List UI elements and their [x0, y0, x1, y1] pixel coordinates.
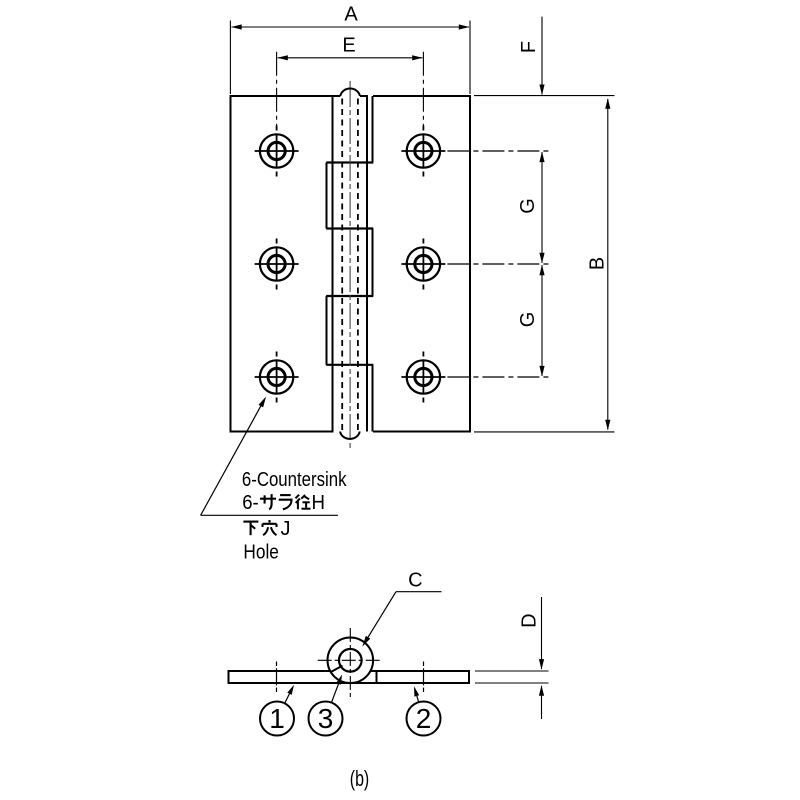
svg-text:Hole: Hole: [243, 541, 279, 563]
svg-text:J: J: [281, 518, 291, 540]
svg-text:G: G: [517, 312, 539, 328]
svg-text:D: D: [518, 613, 540, 627]
svg-text:6-: 6-: [242, 492, 259, 514]
svg-text:1: 1: [269, 703, 285, 734]
svg-text:2: 2: [416, 703, 432, 734]
svg-text:G: G: [517, 198, 539, 214]
svg-text:A: A: [344, 4, 358, 26]
svg-text:3: 3: [318, 703, 334, 734]
svg-text:6-Countersink: 6-Countersink: [242, 469, 347, 491]
svg-text:H: H: [312, 492, 326, 514]
svg-text:C: C: [408, 569, 422, 591]
svg-text:E: E: [342, 35, 355, 57]
svg-text:(b): (b): [350, 766, 370, 791]
svg-text:B: B: [587, 257, 609, 270]
svg-text:F: F: [518, 41, 540, 53]
